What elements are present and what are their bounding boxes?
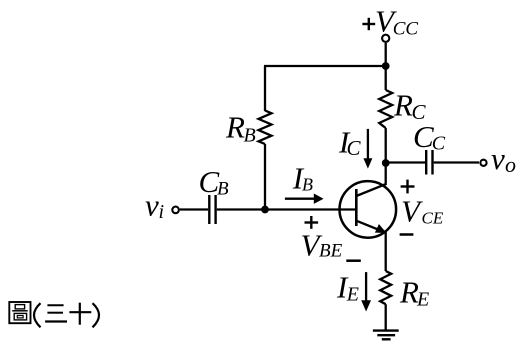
label vo <box>491 141 516 177</box>
wire top horizontal <box>264 65 386 67</box>
terminal VCC <box>382 35 389 42</box>
svg-text:C: C <box>347 136 362 160</box>
transistor Q1 collector diagonal <box>356 184 386 196</box>
label CB <box>199 164 230 200</box>
glyph 圖 outer box <box>9 302 30 323</box>
svg-text:R: R <box>225 110 245 145</box>
svg-text:B: B <box>244 124 256 146</box>
label VCE plus <box>401 180 415 194</box>
label +VCC <box>362 3 418 39</box>
glyph 三 bottom bar <box>45 320 67 322</box>
terminal vo <box>480 160 486 166</box>
transistor Q1 base bar <box>355 189 358 226</box>
wire CB to base <box>217 208 355 210</box>
wire collector node into transistor <box>385 163 387 185</box>
capacitor CC <box>426 150 432 175</box>
svg-text:V: V <box>401 194 423 229</box>
resistor RE <box>380 271 391 304</box>
glyph 圖 bottom outer box <box>14 313 26 320</box>
transistor Q1 emitter diagonal <box>356 221 383 232</box>
wire RC to collector node <box>385 128 387 163</box>
svg-text:B: B <box>302 175 313 195</box>
ground <box>373 331 399 340</box>
transistor Q1 circle <box>340 181 397 238</box>
svg-text:E: E <box>416 288 429 310</box>
wire VCC terminal to top node <box>385 43 387 66</box>
svg-text:CE: CE <box>422 209 444 228</box>
wire CC to vo <box>434 161 479 163</box>
node base junction <box>261 206 269 214</box>
wire RC top <box>385 66 387 90</box>
wire RE to ground <box>385 304 387 330</box>
label VBE plus <box>305 216 319 229</box>
label VBE <box>301 227 343 262</box>
node top junction <box>382 62 390 70</box>
svg-text:E: E <box>346 283 359 305</box>
svg-text:o: o <box>505 152 516 177</box>
svg-text:R: R <box>393 88 413 123</box>
svg-text:i: i <box>159 201 165 223</box>
wire emitter to RE <box>385 231 387 271</box>
arrow IC <box>363 129 372 169</box>
svg-text:CC: CC <box>393 18 419 39</box>
svg-text:R: R <box>399 275 419 310</box>
label RE <box>399 275 429 311</box>
wire left vertical to RB <box>264 66 266 111</box>
label figure caption 圖(三十) <box>9 302 99 327</box>
svg-text:C: C <box>432 133 446 155</box>
label VCE <box>401 194 444 229</box>
svg-text:v: v <box>145 188 159 223</box>
label IC <box>338 125 362 161</box>
terminal vi <box>172 207 179 214</box>
glyph close paren <box>93 303 100 327</box>
arrow IE <box>361 272 371 311</box>
resistor RB <box>259 111 272 145</box>
label vi <box>145 188 164 224</box>
glyph 三 top bar <box>47 304 63 306</box>
label IB <box>292 160 313 195</box>
arrow IB <box>285 194 324 204</box>
wire collector node to CC <box>386 161 425 163</box>
resistor RC <box>379 90 392 128</box>
label VBE minus <box>346 259 361 262</box>
glyph 十 vertical bar <box>79 303 81 325</box>
wire vi to CB <box>180 208 208 210</box>
label VCE minus <box>400 233 414 236</box>
svg-text:v: v <box>491 141 505 176</box>
glyph 圖 middle bar <box>12 310 28 312</box>
glyph 三 middle bar <box>47 312 63 314</box>
label IE <box>336 269 359 305</box>
label RC <box>393 88 427 124</box>
wire RB to base node <box>264 144 266 209</box>
label CC <box>413 119 446 155</box>
label RB <box>225 110 256 147</box>
node collector junction <box>382 159 390 167</box>
glyph 十 horizontal bar <box>69 311 91 313</box>
svg-text:B: B <box>217 179 229 200</box>
svg-text:BE: BE <box>319 241 343 262</box>
glyph 圖 inner top small box <box>15 305 24 309</box>
glyph 圖 bottom inner box <box>17 316 23 318</box>
transistor Q1 emitter arrowhead <box>375 224 387 233</box>
glyph open paren <box>34 303 41 327</box>
capacitor CB <box>209 195 215 224</box>
